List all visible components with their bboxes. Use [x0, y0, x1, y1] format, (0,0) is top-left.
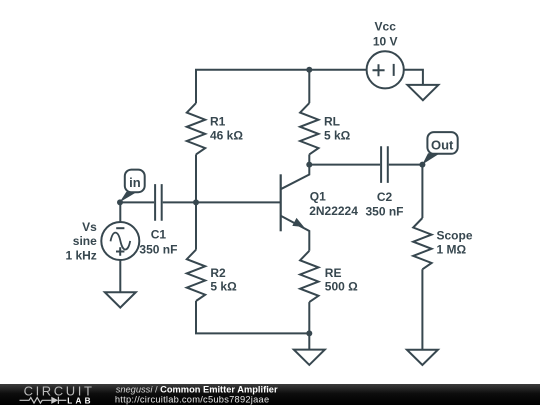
svg-text:R1: R1: [210, 115, 226, 129]
svg-text:in: in: [129, 175, 141, 190]
svg-text:350 nF: 350 nF: [139, 242, 177, 256]
svg-text:C2: C2: [377, 190, 393, 204]
svg-text:5 kΩ: 5 kΩ: [210, 280, 237, 294]
svg-text:350 nF: 350 nF: [365, 205, 403, 219]
svg-text:RE: RE: [325, 266, 342, 280]
svg-text:RL: RL: [324, 115, 340, 129]
svg-text:C1: C1: [151, 228, 167, 242]
svg-text:R2: R2: [210, 266, 226, 280]
svg-text:snegussi / Common Emitter Ampl: snegussi / Common Emitter Amplifier: [116, 384, 278, 394]
svg-text:46 kΩ: 46 kΩ: [210, 129, 243, 143]
svg-text:500 Ω: 500 Ω: [325, 280, 358, 294]
svg-text:http://circuitlab.com/c5ubs789: http://circuitlab.com/c5ubs7892jaae: [115, 394, 270, 404]
svg-text:Scope: Scope: [437, 228, 473, 242]
svg-text:1 MΩ: 1 MΩ: [437, 243, 467, 257]
svg-text:10 V: 10 V: [373, 34, 398, 48]
svg-text:sine: sine: [73, 234, 97, 248]
svg-text:Vs: Vs: [82, 220, 97, 234]
svg-text:Q1: Q1: [310, 190, 326, 204]
svg-text:Vcc: Vcc: [375, 19, 397, 33]
svg-text:5 kΩ: 5 kΩ: [324, 129, 351, 143]
svg-text:LAB: LAB: [67, 396, 93, 405]
svg-text:Out: Out: [431, 137, 454, 152]
svg-text:2N22224: 2N22224: [309, 204, 358, 218]
svg-text:1 kHz: 1 kHz: [65, 249, 96, 263]
